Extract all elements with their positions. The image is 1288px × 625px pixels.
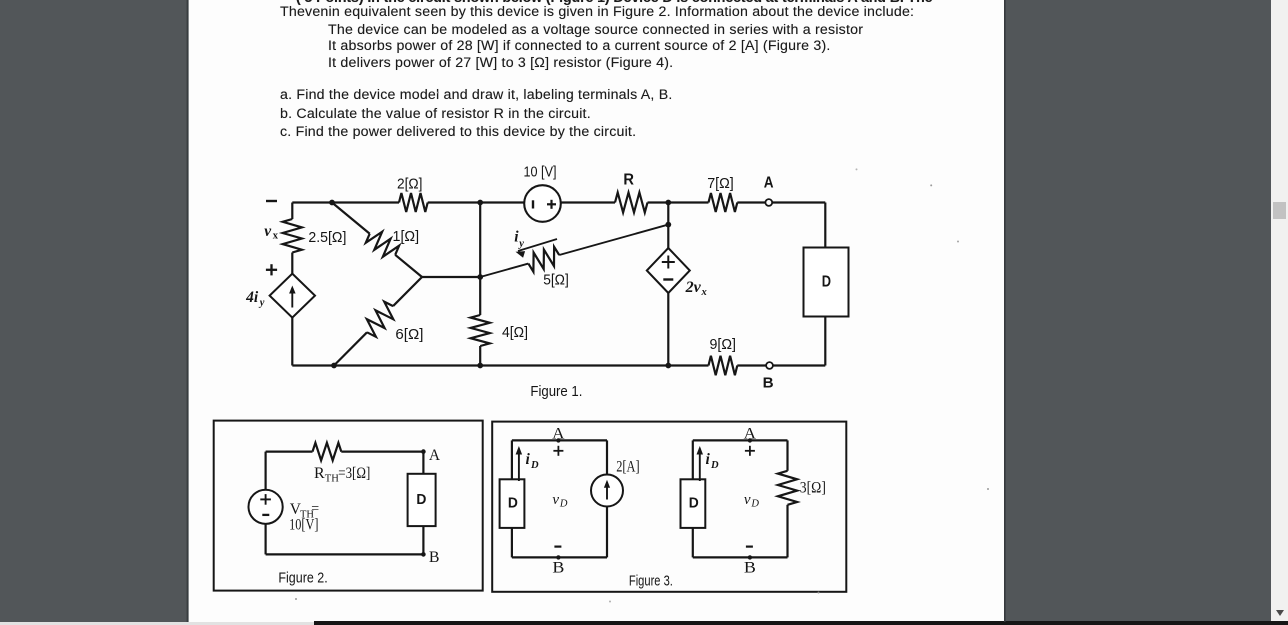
svg-text:5[Ω]: 5[Ω] xyxy=(543,273,569,289)
svg-text:Figure 1.: Figure 1. xyxy=(530,384,582,400)
svg-text:i: i xyxy=(526,451,531,468)
svg-text:2[A]: 2[A] xyxy=(616,459,639,476)
svg-text:D: D xyxy=(416,491,426,508)
svg-text:2.5[Ω]: 2.5[Ω] xyxy=(308,230,346,246)
svg-text:10 [V]: 10 [V] xyxy=(524,165,557,181)
svg-text:TH: TH xyxy=(325,474,339,485)
svg-text:9[Ω]: 9[Ω] xyxy=(710,337,737,353)
svg-text:R: R xyxy=(623,171,634,188)
svg-text:y: y xyxy=(258,298,265,309)
svg-text:B: B xyxy=(429,549,440,566)
svg-text:x: x xyxy=(273,231,279,242)
svg-text:x: x xyxy=(701,287,707,298)
svg-text:4[Ω]: 4[Ω] xyxy=(502,325,528,341)
svg-text:A: A xyxy=(744,426,757,443)
svg-text:D: D xyxy=(508,494,518,511)
svg-text:i: i xyxy=(706,451,711,468)
svg-text:4i: 4i xyxy=(245,289,259,306)
svg-text:R: R xyxy=(314,465,325,482)
svg-text:D: D xyxy=(750,499,759,510)
svg-text:1[Ω]: 1[Ω] xyxy=(393,229,420,245)
svg-text:6[Ω]: 6[Ω] xyxy=(395,327,423,343)
svg-text:y: y xyxy=(517,239,524,250)
svg-text:B: B xyxy=(763,375,774,392)
svg-text:B: B xyxy=(552,560,564,577)
svg-text:Figure 3.: Figure 3. xyxy=(629,573,673,589)
svg-text:=: = xyxy=(311,502,319,517)
svg-text:v: v xyxy=(552,492,559,508)
svg-text:3[Ω]: 3[Ω] xyxy=(800,480,826,497)
svg-text:2[Ω]: 2[Ω] xyxy=(397,177,423,193)
svg-text:=3[Ω]: =3[Ω] xyxy=(338,465,370,482)
svg-text:D: D xyxy=(822,273,831,290)
svg-text:7[Ω]: 7[Ω] xyxy=(707,176,734,192)
svg-text:D: D xyxy=(530,460,539,471)
svg-text:B: B xyxy=(744,560,756,577)
svg-text:2v: 2v xyxy=(685,279,702,296)
svg-text:D: D xyxy=(710,460,719,471)
svg-text:Figure 2.: Figure 2. xyxy=(278,570,327,586)
svg-text:v: v xyxy=(264,223,272,240)
svg-text:v: v xyxy=(744,492,751,508)
svg-text:A: A xyxy=(552,426,565,443)
svg-text:A: A xyxy=(429,447,441,464)
svg-text:10[V]: 10[V] xyxy=(289,517,318,534)
svg-text:A: A xyxy=(764,174,774,191)
svg-text:D: D xyxy=(559,499,568,510)
svg-text:D: D xyxy=(689,494,699,511)
